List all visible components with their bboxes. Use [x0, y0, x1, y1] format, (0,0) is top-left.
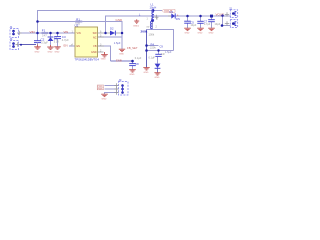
svg-text:10µH: 10µH [150, 5, 157, 9]
ground below D4 [154, 73, 160, 75]
svg-text:VIN: VIN [64, 30, 69, 34]
svg-text:GND: GND [119, 54, 124, 56]
ground below C7 [197, 28, 204, 30]
capacitor C7 labels [204, 19, 211, 26]
diode D2 label [110, 27, 114, 31]
svg-text:10µF: 10µF [191, 24, 197, 27]
svg-text:10µF: 10µF [215, 23, 221, 26]
junction (158.5,50.5) [157, 49, 159, 51]
wire VIN top rail y=10.5 [38, 11, 163, 41]
svg-text:GND: GND [144, 72, 149, 74]
PWR_FLAG pair at J3 [97, 85, 103, 91]
net label on y=61 wire [116, 58, 122, 62]
pin cross J2 top [225, 12, 229, 16]
junction (222.5,15.5) [221, 14, 224, 17]
wire SW node vertical x=152.5 [152, 16, 154, 21]
svg-text:PWR: PWR [98, 89, 103, 91]
junction (50.5,33) [49, 32, 52, 35]
svg-text:R1: R1 [76, 17, 80, 21]
capacitor C5 labels [191, 20, 197, 27]
connector J2 box top [230, 10, 237, 18]
svg-text:VIN: VIN [77, 32, 81, 35]
svg-text:4.7µF: 4.7µF [204, 23, 211, 26]
wire C6 drop x=211.5 [211, 16, 213, 28]
diode D4 down [155, 64, 161, 69]
capacitor C2 label [41, 37, 49, 44]
svg-text:GND: GND [209, 33, 214, 35]
connector J1 label [10, 25, 13, 29]
pot pin numbers [147, 19, 159, 29]
svg-text:J1: J1 [10, 25, 13, 29]
capacitor C3 label [62, 35, 69, 42]
net label VIN at IC pin [64, 30, 69, 34]
junction (105.5,33) [104, 32, 107, 35]
fuse F1 on VIN wire [42, 29, 48, 38]
connector J3 label [119, 78, 122, 82]
svg-text:EN: EN [77, 45, 81, 48]
wire y=50.5 [147, 50, 174, 52]
svg-text:NC: NC [93, 36, 97, 39]
junction (146.5,50.5) [145, 49, 148, 52]
svg-text:F1: F1 [42, 29, 46, 33]
svg-text:C9: C9 [160, 44, 164, 48]
connector J4 box [10, 41, 19, 50]
svg-text:GND1: GND1 [133, 25, 140, 27]
ground below D1 [47, 45, 54, 49]
wire J3 pins [105, 86, 119, 95]
ground at IC GND pin [101, 52, 108, 57]
junction (37.5,33) [36, 32, 39, 35]
svg-text:200k: 200k [141, 30, 148, 34]
svg-text:FB_SET: FB_SET [127, 46, 138, 50]
resistor R1 shunt on rail [75, 17, 82, 25]
wire D1 connection x=50.5 [50, 33, 52, 37]
capacitor C9 [155, 54, 161, 56]
junction (222,25.5) [221, 24, 224, 27]
capacitor C7 [197, 21, 203, 23]
wire R9 drop x=200.5 [200, 16, 202, 28]
IC U2 refdes [75, 23, 79, 27]
ground below C6 [208, 28, 215, 30]
svg-text:TPS61041DBVTG4: TPS61041DBVTG4 [75, 57, 100, 61]
wire y=61 [111, 60, 133, 62]
junction (200.5,16) [199, 15, 202, 18]
wire J1b to C1 bottom y=44.5 [19, 44, 36, 46]
svg-text:4.7µF: 4.7µF [62, 38, 69, 42]
pin cross J3 pin3 [114, 90, 118, 94]
junction (122,33) [121, 32, 124, 35]
IC SW pin stub [98, 32, 105, 34]
potentiometer R7 [151, 15, 159, 29]
wire rail y=21.5 [38, 22, 123, 50]
net label GND on rail [116, 18, 124, 22]
svg-text:GND: GND [155, 77, 160, 79]
wire pot bottom vertical [152, 21, 154, 30]
svg-text:J4: J4 [10, 37, 13, 41]
junction (153.5,10.5) [153, 10, 155, 12]
pin number 2 [100, 49, 102, 52]
ground below x=146.5 [143, 68, 149, 70]
IC FB pin stub [98, 45, 105, 47]
capacitor C6 label [215, 23, 221, 26]
zener D1 at x=50.5 [48, 37, 54, 45]
svg-text:C8: C8 [135, 62, 139, 66]
wire D4 to gnd [157, 57, 159, 73]
svg-text:SW: SW [93, 32, 98, 35]
svg-text:GND: GND [198, 33, 203, 35]
diode D2 at SW pin [107, 31, 121, 36]
diode D3 labels [170, 10, 181, 21]
svg-text:D3: D3 [170, 10, 174, 14]
power flag [134, 19, 139, 23]
pin cross J1b [16, 42, 21, 46]
pin cross J1a [17, 31, 22, 35]
svg-text:GND: GND [55, 51, 60, 53]
svg-text:3.3µF: 3.3µF [41, 41, 48, 45]
capacitor C2 at x=37.5 [34, 41, 41, 45]
svg-text:GND: GND [91, 51, 97, 54]
IC GND pin stub [98, 51, 104, 53]
wire C8 connections [132, 61, 134, 70]
junction (152.5,20.5) [151, 19, 154, 22]
wire y=29.5 [147, 30, 174, 51]
wire EN pin right y=46 [98, 46, 111, 61]
connector J2 label [229, 7, 232, 11]
svg-text:GND: GND [101, 58, 106, 60]
wire y=45.5 [147, 45, 159, 47]
svg-text:GND: GND [48, 52, 53, 54]
svg-text:0.1µF: 0.1µF [135, 57, 142, 60]
wire C9 branch x=158.5 [158, 51, 160, 55]
net label VIN [30, 30, 35, 34]
wire x=146.5 vertical [146, 30, 148, 68]
net label VOUT right [216, 12, 225, 16]
svg-text:FB: FB [93, 45, 97, 48]
svg-text:220k: 220k [150, 46, 156, 50]
svg-text:1.5µF: 1.5µF [165, 51, 172, 54]
IC U2 part name [75, 57, 100, 61]
svg-text:5.1V: 5.1V [54, 41, 59, 44]
svg-text:VIN: VIN [30, 30, 35, 34]
inductor L1 [152, 9, 154, 20]
inductor L1 labels [139, 2, 156, 16]
svg-text:100k: 100k [149, 32, 155, 36]
svg-text:EN: EN [64, 44, 68, 48]
junction (132.5,61) [131, 60, 134, 63]
ground below J3 wire [101, 94, 108, 96]
ground below C3 [54, 47, 61, 50]
wire J2 lower x=222.5 [223, 16, 231, 26]
capacitor C5 [184, 21, 191, 23]
wire FB y=37 [98, 36, 122, 38]
pin cross J3 pin1 [114, 83, 118, 87]
svg-text:J2: J2 [229, 7, 232, 11]
IC pin EN name [77, 45, 81, 48]
junction (57.5,33) [56, 32, 59, 35]
wire EN left y=46 [69, 45, 75, 47]
svg-text:1.5µF: 1.5µF [114, 41, 121, 45]
net label EN [64, 44, 73, 48]
svg-text:1nF: 1nF [161, 54, 166, 56]
wire C3 connections x=57.5 [57, 33, 59, 47]
svg-text:D2: D2 [110, 27, 114, 31]
svg-text:cw: cw [147, 27, 150, 29]
IC pin GND name [91, 51, 97, 54]
connector J3 box [119, 82, 129, 96]
pin number 3 [100, 43, 102, 46]
svg-text:U2: U2 [75, 23, 79, 27]
pin number 5 [100, 34, 102, 37]
svg-text:40V: 40V [176, 18, 181, 21]
diode D3 output [168, 13, 175, 18]
svg-text:0.1µF: 0.1µF [149, 57, 156, 60]
ground at x=122 [119, 49, 125, 51]
IC pin SW name [93, 32, 98, 35]
connector J1 box [10, 29, 19, 38]
svg-text:VOUT: VOUT [216, 12, 225, 16]
svg-text:GND: GND [116, 18, 124, 22]
ground below C5 [184, 28, 191, 30]
svg-text:J3: J3 [119, 78, 122, 82]
potentiometer labels [141, 30, 155, 37]
IC pin NC name [93, 36, 97, 39]
svg-text:GND: GND [102, 99, 107, 101]
wire SW vertical x=105.5 [106, 16, 232, 33]
junction (187.5,16) [186, 15, 189, 18]
net label FB set [127, 46, 138, 50]
zener D1 label [54, 36, 59, 43]
svg-text:GND: GND [35, 51, 40, 53]
resistor R4 labels [150, 42, 156, 49]
connector J2 box bottom [230, 20, 237, 28]
pin cross J2 bottom [225, 21, 229, 25]
capacitor C6 [208, 20, 215, 22]
svg-text:GND: GND [130, 74, 135, 76]
capacitor C8 [129, 64, 136, 66]
pin number 4 [72, 43, 74, 46]
junction (146.5,45.5) [145, 44, 148, 47]
svg-text:ENB: ENB [116, 58, 122, 62]
net label VOUT global [162, 9, 175, 13]
capacitor C3 at x=57.5 [54, 37, 61, 39]
svg-text:GND: GND [185, 33, 190, 35]
ground below C2 [34, 45, 41, 50]
IC pin FB name [93, 45, 97, 48]
pin number 6 [100, 30, 102, 33]
capacitor C9 labels [149, 44, 172, 59]
capacitor value text near x=122 [114, 41, 121, 45]
junction (37.5,21.5) [36, 20, 39, 23]
capacitor C8 labels [135, 57, 142, 66]
J1b polarity dot [20, 44, 22, 46]
wire VIN y=33 [19, 32, 75, 34]
connector J4 label [10, 37, 13, 41]
junction (211.5,16) [210, 15, 213, 18]
ground below C8 [129, 70, 136, 72]
pin number 1 [72, 30, 74, 33]
IC NC pin stub [98, 36, 105, 38]
wire C5 drop x=187.5 [187, 16, 189, 28]
pin cross J3 pin2 [114, 87, 118, 91]
IC U2 body [75, 27, 98, 57]
IC pin VIN name [77, 32, 81, 35]
